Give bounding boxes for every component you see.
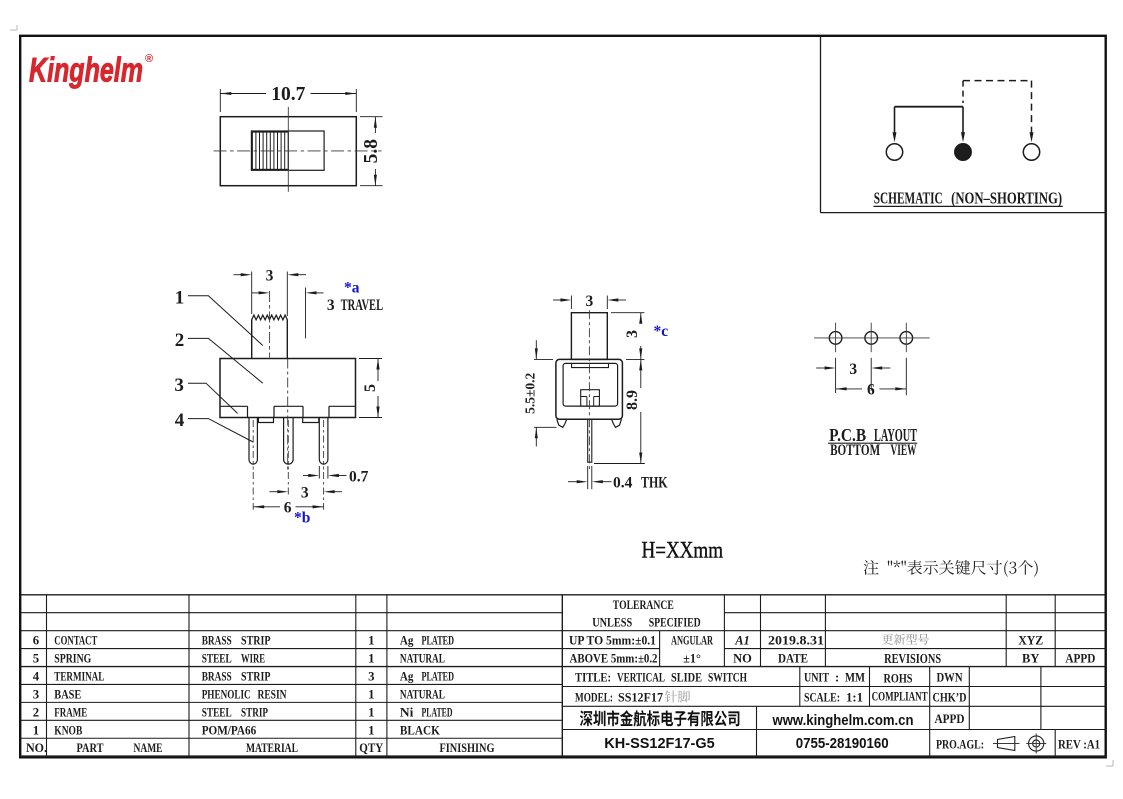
schematic: pin terminal circle right — [1023, 144, 1039, 160]
svg-text:±1°: ±1° — [683, 652, 701, 666]
svg-text:VIEW: VIEW — [891, 440, 917, 459]
pcb layout: hole 2 — [865, 332, 878, 345]
svg-text:1: 1 — [175, 288, 185, 309]
svg-text:CHK’D: CHK’D — [933, 690, 967, 704]
revision note CJK (grey) — [882, 634, 929, 645]
svg-text::: : — [835, 671, 839, 685]
svg-text:6: 6 — [867, 382, 875, 399]
dimension 3 *c (knob height) — [611, 312, 644, 314]
svg-text:3: 3 — [327, 297, 335, 314]
svg-text:DWN: DWN — [937, 671, 963, 685]
svg-text:5: 5 — [33, 652, 39, 666]
svg-text:QTY: QTY — [359, 741, 383, 755]
svg-text:3: 3 — [174, 375, 184, 396]
dimension 3 (knob depth, side) — [570, 296, 572, 310]
svg-text:A1: A1 — [734, 634, 750, 648]
svg-text:REVISIONS: REVISIONS — [884, 651, 941, 666]
schematic: pin terminal circle left — [886, 144, 902, 160]
svg-text:0.4: 0.4 — [613, 474, 633, 491]
pcb layout: vertical centerlines — [835, 323, 837, 353]
svg-text:STEEL: STEEL — [202, 652, 232, 666]
svg-text:4: 4 — [33, 669, 40, 683]
svg-text:NO.: NO. — [26, 741, 47, 755]
svg-text:SCALE:: SCALE: — [804, 690, 840, 704]
svg-text:SPECIFIED: SPECIFIED — [649, 616, 701, 630]
front view: frame crimp tabs below body — [258, 418, 273, 423]
side view: inner window recessed step — [572, 364, 609, 368]
top view: horizontal centerline — [214, 150, 382, 152]
side view: vertical centerline — [588, 310, 590, 469]
svg-text:WIRE: WIRE — [241, 652, 265, 666]
pcb layout: hole 3 — [900, 332, 913, 345]
svg-text:ROHS: ROHS — [884, 672, 913, 686]
front view: base notches at bottom — [220, 405, 248, 407]
company name CJK — [580, 710, 740, 726]
dimension 0.4 THK (pin thickness) — [587, 466, 589, 489]
svg-text:3: 3 — [368, 669, 374, 683]
svg-text:NAME: NAME — [134, 741, 163, 755]
top view: switch body outline — [220, 117, 356, 186]
svg-text:H=XXmm: H=XXmm — [642, 538, 724, 563]
dimension 0.7 (pin width) — [318, 466, 320, 479]
svg-text:TOLERANCE: TOLERANCE — [613, 598, 674, 612]
front view: pin centerlines — [252, 420, 254, 470]
schematic: common terminal circle (filled) — [955, 144, 971, 160]
svg-text:UNIT: UNIT — [804, 671, 830, 685]
svg-text:FINISHING: FINISHING — [440, 741, 495, 755]
svg-text:SPRING: SPRING — [54, 652, 91, 666]
svg-text:(NON–SHORTING): (NON–SHORTING) — [951, 189, 1062, 208]
svg-text:STRIP: STRIP — [241, 669, 271, 683]
top view: slider opening — [251, 131, 324, 170]
svg-text:ABOVE 5mm:±0.2: ABOVE 5mm:±0.2 — [570, 652, 658, 666]
svg-text:4: 4 — [175, 410, 185, 431]
svg-text:KNOB: KNOB — [54, 723, 82, 737]
svg-text:PRO.AGL:: PRO.AGL: — [936, 737, 984, 751]
svg-text:1: 1 — [368, 634, 374, 648]
svg-text:3: 3 — [266, 268, 274, 285]
svg-text:PLATED: PLATED — [422, 705, 453, 719]
svg-text:1: 1 — [368, 705, 374, 719]
front view: terminal pin 3 — [319, 418, 328, 465]
svg-text:RESIN: RESIN — [258, 687, 288, 701]
top view: knob with serrations — [252, 132, 288, 169]
dimension 5.5±0.2 (body height, side) — [534, 358, 553, 360]
svg-text:10.7: 10.7 — [271, 84, 305, 105]
svg-text:3: 3 — [301, 485, 309, 502]
front view: terminal pin 2 — [284, 418, 294, 465]
svg-text:2019.8.31: 2019.8.31 — [768, 634, 824, 648]
side view: left mounting foot — [557, 419, 567, 427]
svg-text:TRAVEL: TRAVEL — [341, 297, 384, 314]
svg-text:BRASS: BRASS — [202, 634, 232, 648]
projection symbol: truncated cone side view — [998, 737, 1015, 751]
dimension 6 (outer pin span) — [252, 472, 254, 510]
side view: center block with slot — [581, 390, 600, 406]
svg-text:PART: PART — [77, 741, 104, 755]
svg-text:1: 1 — [368, 723, 374, 737]
svg-text:PLATED: PLATED — [422, 634, 455, 648]
svg-text:PHENOLIC: PHENOLIC — [202, 687, 251, 701]
top view: vertical centerline — [287, 107, 289, 192]
svg-text:1:1: 1:1 — [846, 690, 863, 704]
svg-text:6: 6 — [33, 634, 40, 648]
svg-text:STEEL: STEEL — [202, 705, 232, 719]
corner mark top-left — [10, 25, 17, 30]
svg-text:SWITCH: SWITCH — [708, 670, 747, 685]
svg-text:XYZ: XYZ — [1018, 634, 1043, 648]
svg-text:SLIDE: SLIDE — [671, 670, 702, 685]
side view: terminal pin (edge-on) — [588, 419, 592, 462]
pcb layout: horizontal centerline — [814, 337, 930, 339]
svg-text:STRIP: STRIP — [241, 634, 271, 648]
svg-text:Ag: Ag — [400, 669, 414, 683]
svg-text:2: 2 — [175, 330, 185, 351]
note: key dimension remark (CJK) — [864, 560, 1038, 577]
svg-text:DATE: DATE — [778, 652, 808, 666]
svg-text:Ag: Ag — [400, 634, 414, 648]
front view: body centerline — [286, 272, 288, 317]
svg-text:TITLE:: TITLE: — [575, 670, 611, 685]
svg-text:REV :A1: REV :A1 — [1058, 736, 1100, 751]
side view: body outline — [556, 359, 623, 419]
dimension 5 (body height, front) — [359, 358, 382, 360]
svg-text:Ni: Ni — [400, 705, 414, 719]
dimension 8.9 (overall height) — [626, 358, 644, 360]
svg-text:NO: NO — [733, 652, 752, 666]
svg-text:BOTTOM: BOTTOM — [830, 440, 880, 459]
projection symbol: cone front view (target) — [1029, 736, 1044, 751]
svg-text:0.7: 0.7 — [349, 468, 369, 485]
svg-text:UNLESS: UNLESS — [592, 616, 632, 630]
side view: right mounting foot — [612, 419, 622, 427]
schematic: dashed wire alternate position — [962, 81, 964, 103]
svg-text:SS12F17: SS12F17 — [618, 690, 664, 704]
svg-text:STRIP: STRIP — [241, 705, 268, 719]
svg-text:3: 3 — [586, 293, 594, 310]
table grid: vertical lines — [46, 595, 48, 756]
svg-text:COMPLIANT: COMPLIANT — [872, 689, 928, 703]
svg-text:*a: *a — [344, 279, 360, 296]
svg-text:TERMINAL: TERMINAL — [54, 669, 104, 683]
svg-text:5.5±0.2: 5.5±0.2 — [523, 372, 538, 413]
svg-text:PLATED: PLATED — [422, 669, 455, 683]
svg-text:*c: *c — [654, 323, 669, 340]
svg-text:1: 1 — [368, 652, 374, 666]
svg-text:ANGULAR: ANGULAR — [671, 634, 713, 648]
corner mark bottom-right — [1106, 760, 1113, 766]
svg-text:5: 5 — [362, 384, 379, 392]
svg-text:0755-28190160: 0755-28190160 — [796, 736, 889, 752]
svg-text:Kinghelm: Kinghelm — [29, 52, 143, 90]
svg-text:CONTACT: CONTACT — [54, 634, 97, 648]
front view: body — [220, 359, 356, 418]
svg-text:8.9: 8.9 — [624, 390, 641, 410]
svg-text:2: 2 — [33, 705, 39, 719]
dimension 10.7 (top view width) — [219, 89, 221, 112]
svg-text:1: 1 — [33, 723, 39, 737]
svg-text:APPD: APPD — [1065, 652, 1095, 666]
model number CJK suffix (grey) — [665, 691, 690, 703]
side view: knob stem — [571, 313, 607, 360]
pcb layout: hole 1 — [829, 332, 842, 345]
front view: knob centerline — [269, 291, 271, 358]
schematic: solid wire left position — [895, 106, 964, 108]
svg-text:POM/PA66: POM/PA66 — [202, 723, 257, 737]
svg-text:SCHEMATIC: SCHEMATIC — [874, 189, 943, 208]
svg-text:BASE: BASE — [54, 687, 81, 701]
svg-text:MM: MM — [845, 671, 865, 685]
svg-text:NATURAL: NATURAL — [400, 652, 445, 666]
dimension 3 (pin pitch) — [287, 472, 289, 495]
svg-text:5.8: 5.8 — [361, 139, 382, 164]
dimension 3 TRAVEL — [259, 291, 270, 294]
svg-text:3: 3 — [33, 687, 39, 701]
svg-text:*b: *b — [294, 510, 310, 527]
pcb layout: dim 3 — [835, 358, 837, 393]
svg-text:BY: BY — [1022, 652, 1039, 666]
pcb layout: dim 6 — [905, 358, 907, 395]
dimension 5.8 (top view height) — [360, 116, 383, 118]
schematic box — [820, 37, 822, 213]
svg-text:KH-SS12F17-G5: KH-SS12F17-G5 — [604, 736, 714, 752]
side view: frame inner window — [563, 363, 618, 406]
svg-text:MATERIAL: MATERIAL — [246, 741, 298, 755]
front view: terminal pin 1 — [249, 418, 257, 465]
dimension 3 (knob width, front) — [251, 272, 253, 315]
svg-text:VERTICAL: VERTICAL — [617, 670, 665, 685]
svg-text:THK: THK — [641, 474, 668, 491]
svg-text:NATURAL: NATURAL — [400, 687, 445, 701]
table grid: horizontal lines — [20, 594, 1106, 596]
svg-text:UP TO 5mm:±0.1: UP TO 5mm:±0.1 — [569, 634, 656, 648]
svg-text:1: 1 — [368, 687, 374, 701]
front view: knob serrated top (zigzag) — [252, 315, 288, 320]
svg-text:FRAME: FRAME — [54, 705, 87, 719]
front view: knob stem sides — [251, 319, 253, 358]
svg-text:3: 3 — [624, 330, 641, 338]
svg-text:APPD: APPD — [935, 712, 965, 726]
svg-text:6: 6 — [284, 500, 292, 517]
svg-text:www.kinghelm.com.cn: www.kinghelm.com.cn — [772, 712, 914, 729]
svg-text:®: ® — [145, 53, 153, 65]
svg-text:BLACK: BLACK — [400, 723, 440, 737]
svg-text:3: 3 — [849, 361, 857, 378]
svg-text:BRASS: BRASS — [202, 669, 232, 683]
svg-text:MODEL:: MODEL: — [575, 690, 613, 704]
